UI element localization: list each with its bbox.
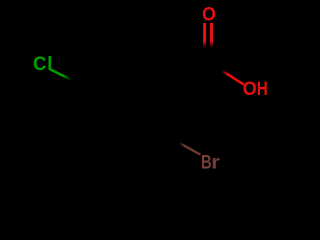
svg-text:C: C xyxy=(33,54,47,76)
svg-text:l: l xyxy=(47,53,52,75)
svg-text:H: H xyxy=(257,77,268,99)
svg-text:O: O xyxy=(202,3,216,25)
svg-text:B: B xyxy=(201,150,212,173)
svg-text:r: r xyxy=(211,152,220,174)
svg-text:O: O xyxy=(243,77,257,99)
